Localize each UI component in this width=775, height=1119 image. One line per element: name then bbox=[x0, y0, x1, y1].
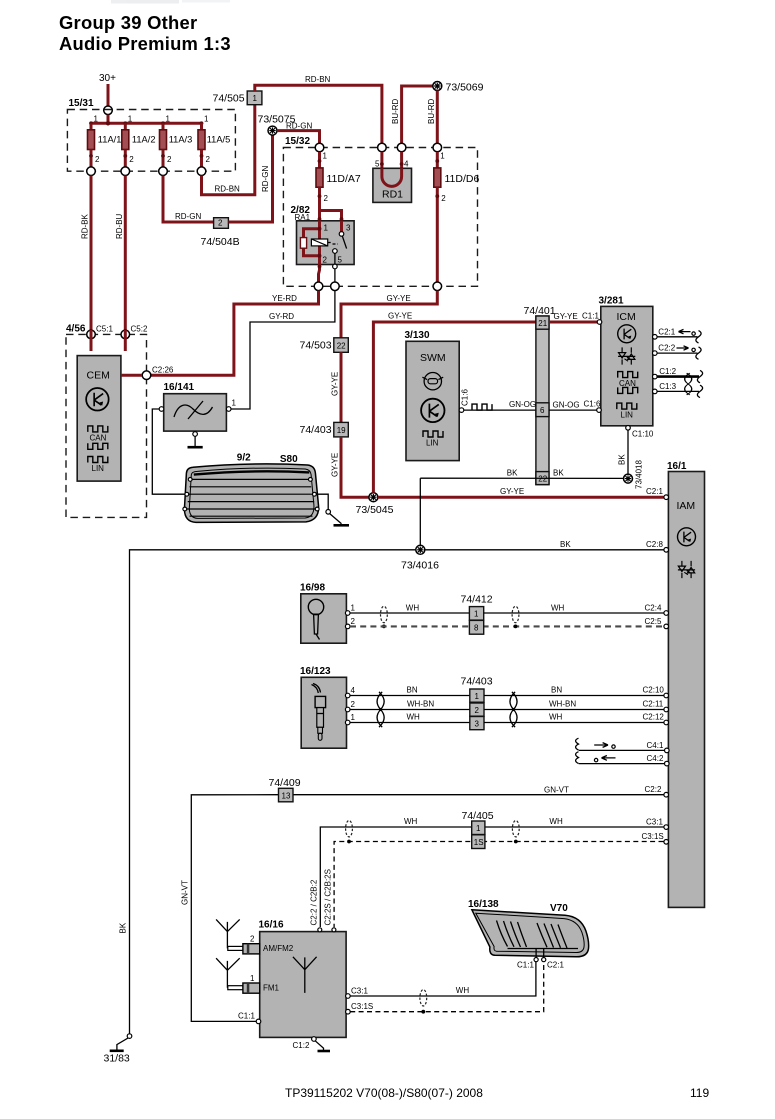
svg-text:C1:2: C1:2 bbox=[293, 1041, 310, 1050]
wire GY-YE 74/401 to ICM C1:1 bbox=[549, 312, 599, 323]
wire GN-VT run bbox=[181, 785, 664, 1021]
svg-text:19: 19 bbox=[337, 426, 346, 435]
wire shield 1S dashed run bbox=[334, 842, 663, 928]
wire GY-YE between connectors bbox=[331, 352, 342, 422]
svg-text:LIN: LIN bbox=[92, 464, 105, 473]
wire RD-BN top run bbox=[255, 75, 382, 143]
fuse 11A/5 bbox=[197, 115, 230, 176]
svg-text:RD-GN: RD-GN bbox=[261, 166, 270, 192]
wire BN aerial bbox=[350, 686, 470, 696]
svg-text:WH-BN: WH-BN bbox=[549, 700, 576, 709]
svg-text:1: 1 bbox=[476, 824, 481, 833]
connector 74/503 pin 22 bbox=[300, 338, 349, 353]
antenna amplifier 16/141 bbox=[159, 382, 236, 431]
box 15/32 bbox=[283, 136, 477, 286]
connector 74/403 lower bbox=[461, 676, 493, 730]
relay switch bbox=[340, 221, 343, 232]
svg-text:73/4016: 73/4016 bbox=[401, 560, 439, 572]
svg-text:C2:11: C2:11 bbox=[643, 699, 664, 708]
svg-text:1: 1 bbox=[250, 974, 255, 983]
wire BK 74/401 pin22 run bbox=[420, 469, 623, 479]
faint cropped header remnant bbox=[111, 0, 230, 4]
svg-text:WH: WH bbox=[551, 604, 565, 613]
svg-text:22: 22 bbox=[337, 341, 346, 350]
svg-text:GY-YE: GY-YE bbox=[387, 294, 411, 303]
wire red bus 15/31 bbox=[91, 122, 202, 125]
fuse 11D/A7 bbox=[316, 152, 361, 211]
wire WH aerial bbox=[350, 713, 470, 723]
svg-text:1: 1 bbox=[351, 604, 356, 613]
svg-text:3/281: 3/281 bbox=[599, 296, 624, 307]
svg-text:LIN: LIN bbox=[426, 439, 439, 448]
svg-text:C5:2: C5:2 bbox=[131, 325, 148, 334]
svg-text:74/405: 74/405 bbox=[462, 810, 494, 822]
svg-text:2: 2 bbox=[351, 700, 356, 709]
svg-text:RD-GN: RD-GN bbox=[286, 122, 312, 131]
twisted pair at ICM bbox=[685, 373, 692, 395]
ground contact at window bbox=[326, 510, 349, 526]
wire WH 74/405 run bbox=[320, 817, 663, 927]
svg-text:4/56: 4/56 bbox=[66, 324, 86, 335]
connector circle 11D/D6 exit bbox=[433, 282, 442, 291]
svg-text:C2:2 / C2B:2: C2:2 / C2B:2 bbox=[310, 879, 319, 925]
svg-text:C1:10: C1:10 bbox=[632, 430, 654, 439]
svg-text:74/409: 74/409 bbox=[269, 777, 301, 789]
svg-text:4: 4 bbox=[351, 686, 356, 695]
svg-text:GY-YE: GY-YE bbox=[388, 312, 412, 321]
svg-text:11D/D6: 11D/D6 bbox=[445, 173, 480, 185]
wire red C5:2 stub bbox=[124, 330, 127, 351]
svg-text:2: 2 bbox=[95, 155, 100, 164]
svg-text:GY-YE: GY-YE bbox=[554, 312, 578, 321]
svg-text:2: 2 bbox=[206, 155, 211, 164]
svg-text:11A/3: 11A/3 bbox=[169, 135, 193, 145]
svg-text:AM/FM2: AM/FM2 bbox=[263, 944, 294, 953]
svg-text:1: 1 bbox=[351, 713, 356, 722]
svg-text:RD-GN: RD-GN bbox=[175, 212, 201, 221]
svg-text:2: 2 bbox=[351, 617, 356, 626]
svg-text:C3:1: C3:1 bbox=[351, 987, 368, 996]
steering wheel module SWM 3/130 bbox=[405, 330, 470, 461]
svg-text:BK: BK bbox=[507, 469, 518, 478]
IAM pin C4:1 lead bbox=[576, 738, 665, 750]
shield screen left of 74/412 bbox=[381, 606, 388, 628]
node 30+ bbox=[99, 73, 116, 123]
wire WH-BN aerial bbox=[350, 700, 470, 710]
wire RD-BU bbox=[115, 176, 126, 331]
junction 73/5069 bbox=[433, 82, 484, 94]
svg-text:3: 3 bbox=[475, 720, 480, 729]
wire GY-YE branch up to 74/401 bbox=[373, 312, 536, 493]
svg-text:GY-YE: GY-YE bbox=[500, 487, 524, 496]
wire red C5:1 stub bbox=[90, 330, 93, 351]
svg-text:1: 1 bbox=[94, 115, 99, 124]
svg-text:SWM: SWM bbox=[420, 352, 446, 364]
svg-text:2: 2 bbox=[475, 706, 480, 715]
wire WH 16/16 to V70 aerial bbox=[350, 962, 536, 996]
svg-text:1: 1 bbox=[204, 115, 209, 124]
svg-text:16/1: 16/1 bbox=[667, 461, 687, 472]
svg-text:C2:2S / C2B:2S: C2:2S / C2B:2S bbox=[324, 869, 333, 925]
shield screen left of 74/405 bbox=[346, 821, 353, 844]
wire GN-OG 74/401 to ICM C1:6 bbox=[549, 400, 601, 411]
svg-text:2: 2 bbox=[218, 219, 223, 228]
wire WH to IAM C2:12 bbox=[484, 713, 664, 723]
connector 74/504B pin 2 bbox=[201, 218, 240, 248]
wire WH mic to IAM C2:4 bbox=[484, 604, 664, 614]
svg-text:74/505: 74/505 bbox=[213, 93, 245, 105]
svg-text:C2:1: C2:1 bbox=[658, 327, 675, 336]
svg-text:16/123: 16/123 bbox=[300, 666, 331, 677]
svg-text:IAM: IAM bbox=[677, 500, 696, 512]
svg-text:C2:10: C2:10 bbox=[643, 685, 665, 694]
svg-text:C2:1: C2:1 bbox=[646, 487, 663, 496]
svg-text:GN-VT: GN-VT bbox=[181, 880, 190, 905]
svg-text:3: 3 bbox=[346, 224, 351, 233]
fuse 11A/1 bbox=[87, 115, 122, 176]
antenna amplifier 16/16 bbox=[238, 920, 373, 1051]
wire BU-RD left bbox=[391, 86, 433, 143]
svg-text:GY-YE: GY-YE bbox=[331, 453, 340, 477]
svg-text:GY-YE: GY-YE bbox=[331, 372, 340, 396]
wire RD-GN to 11D/A7 bbox=[277, 122, 320, 144]
svg-text:5: 5 bbox=[375, 160, 380, 169]
fuse 11A/2 bbox=[121, 115, 156, 176]
svg-text:C2:12: C2:12 bbox=[643, 712, 665, 721]
shield screen on V70 wire bbox=[420, 990, 427, 1014]
svg-text:1: 1 bbox=[166, 115, 171, 124]
connector circle RD1 pin5 entry bbox=[378, 143, 387, 152]
fuse 11D/D6 bbox=[434, 152, 480, 291]
svg-text:C2:26: C2:26 bbox=[152, 366, 174, 375]
ICM pin C1:3 lead bbox=[657, 382, 703, 398]
ground 31/83 bbox=[104, 1034, 132, 1065]
svg-text:C2:1: C2:1 bbox=[547, 961, 564, 970]
svg-text:73/5069: 73/5069 bbox=[446, 82, 484, 94]
svg-text:YE-RD: YE-RD bbox=[272, 294, 297, 303]
svg-text:30+: 30+ bbox=[99, 73, 116, 84]
svg-text:BK: BK bbox=[560, 540, 571, 549]
wire GY-RD relay pin5 to 16/141 bbox=[231, 291, 335, 409]
connector 74/505 pin 1 bbox=[213, 91, 262, 105]
svg-text:73/5045: 73/5045 bbox=[356, 504, 394, 516]
wire WH-BN to IAM C2:11 bbox=[484, 700, 664, 710]
svg-text:5: 5 bbox=[338, 256, 343, 265]
wire WH mic signal bbox=[350, 604, 469, 614]
connector circle 11D/A7 entry bbox=[315, 143, 324, 152]
ground at 16/16 C1:2 bbox=[315, 1041, 330, 1051]
relay coil bbox=[311, 239, 327, 246]
connector 74/409 pin 13 bbox=[269, 777, 301, 802]
svg-text:C1:6: C1:6 bbox=[461, 389, 470, 406]
svg-text:C4:1: C4:1 bbox=[647, 741, 664, 750]
svg-text:9/2: 9/2 bbox=[237, 453, 251, 464]
svg-text:2: 2 bbox=[323, 256, 328, 265]
svg-text:1: 1 bbox=[440, 152, 445, 161]
svg-text:BK: BK bbox=[119, 922, 128, 933]
svg-text:21: 21 bbox=[538, 319, 547, 328]
junction 73/4018 bbox=[624, 460, 644, 489]
svg-text:16/141: 16/141 bbox=[164, 382, 195, 393]
svg-text:73/4018: 73/4018 bbox=[635, 460, 644, 489]
roof aerial FM1 bbox=[216, 958, 260, 993]
svg-text:74/412: 74/412 bbox=[461, 594, 493, 606]
svg-text:16/16: 16/16 bbox=[259, 920, 284, 931]
svg-text:2: 2 bbox=[441, 194, 446, 203]
svg-text:74/403: 74/403 bbox=[461, 676, 493, 688]
connector circle RD1 pin4 entry bbox=[397, 143, 406, 152]
wire window to ground switch bbox=[316, 494, 328, 509]
svg-text:1: 1 bbox=[324, 224, 329, 233]
svg-text:CEM: CEM bbox=[87, 370, 110, 382]
svg-text:3/130: 3/130 bbox=[405, 330, 430, 341]
node bus junction bbox=[106, 121, 110, 125]
svg-text:C1:1: C1:1 bbox=[238, 1012, 255, 1021]
wire branch to relay pin3 bbox=[320, 211, 342, 221]
svg-text:WH: WH bbox=[407, 713, 421, 722]
svg-text:RD-BU: RD-BU bbox=[115, 213, 124, 239]
svg-text:6: 6 bbox=[540, 406, 545, 415]
svg-text:WH: WH bbox=[549, 713, 563, 722]
fuse box 15/31 bbox=[67, 98, 235, 171]
svg-text:1S: 1S bbox=[474, 838, 484, 847]
wire 30+ feed bbox=[107, 84, 110, 106]
svg-text:C1:1: C1:1 bbox=[517, 961, 534, 970]
aerial 16/123 bbox=[300, 666, 356, 748]
wire BU-RD right bbox=[427, 91, 437, 144]
wire YE-RD relay pin2 to CEM C2:26 bbox=[151, 291, 319, 376]
connector circle 11D/D6 entry bbox=[433, 143, 442, 152]
svg-text:16/98: 16/98 bbox=[300, 583, 325, 594]
wire shield dashed to V70 C2:1 bbox=[350, 962, 544, 1012]
svg-text:C2:2: C2:2 bbox=[658, 344, 675, 353]
connector circle 30+ entry bbox=[104, 106, 113, 115]
wire 16/141 to window antenna bbox=[152, 409, 185, 494]
wire 30+ to bus bbox=[107, 115, 110, 124]
control module CEM 4/56 bbox=[66, 324, 174, 518]
svg-text:13: 13 bbox=[282, 791, 291, 800]
svg-text:BN: BN bbox=[551, 686, 562, 695]
wire RD-BK bbox=[81, 176, 92, 331]
connector 74/412 bbox=[461, 594, 493, 635]
svg-text:C5:1: C5:1 bbox=[96, 325, 113, 334]
svg-text:C1:6: C1:6 bbox=[584, 400, 601, 409]
audio module IAM 16/1 bbox=[664, 461, 705, 907]
svg-text:WH-BN: WH-BN bbox=[407, 700, 434, 709]
wire GN-OG SWM to 74/401 bbox=[464, 400, 536, 410]
svg-text:C3:1: C3:1 bbox=[646, 817, 663, 826]
wire GY-YE from 11D/D6 down the middle bbox=[341, 291, 437, 338]
svg-text:1: 1 bbox=[253, 94, 258, 103]
svg-text:119: 119 bbox=[690, 1086, 709, 1100]
svg-text:1: 1 bbox=[475, 692, 480, 701]
svg-text:BN: BN bbox=[407, 686, 418, 695]
junction 73/5075 bbox=[258, 114, 296, 136]
svg-text:11D/A7: 11D/A7 bbox=[327, 173, 361, 185]
wire BK ICM C1:10 to junction bbox=[618, 430, 629, 474]
svg-text:1: 1 bbox=[474, 610, 479, 619]
svg-text:74/403: 74/403 bbox=[300, 424, 332, 436]
svg-text:RD-BK: RD-BK bbox=[81, 213, 90, 239]
svg-text:CAN: CAN bbox=[90, 434, 107, 443]
svg-text:2: 2 bbox=[324, 194, 329, 203]
svg-text:WH: WH bbox=[406, 604, 420, 613]
connector circle relay pin2 exit bbox=[314, 282, 323, 291]
svg-text:C4:2: C4:2 bbox=[647, 754, 664, 763]
svg-text:Group 39 Other: Group 39 Other bbox=[59, 12, 197, 33]
svg-text:BU-RD: BU-RD bbox=[391, 98, 400, 124]
diode unit RD1 bbox=[373, 152, 412, 203]
shield screen right of 74/405 bbox=[512, 821, 519, 844]
svg-text:C2:5: C2:5 bbox=[645, 617, 662, 626]
svg-text:2: 2 bbox=[167, 155, 172, 164]
svg-text:LIN: LIN bbox=[621, 410, 634, 419]
svg-text:C1:3: C1:3 bbox=[659, 382, 676, 391]
microphone 16/98 bbox=[300, 583, 356, 644]
svg-text:15/32: 15/32 bbox=[285, 136, 310, 147]
svg-text:11A/2: 11A/2 bbox=[132, 135, 156, 145]
relay resistor bbox=[300, 238, 306, 249]
svg-text:2: 2 bbox=[250, 935, 255, 944]
infotainment control module ICM 3/281 bbox=[597, 296, 657, 439]
svg-text:GN-OG: GN-OG bbox=[509, 400, 536, 409]
svg-text:1: 1 bbox=[232, 399, 237, 408]
svg-text:8: 8 bbox=[474, 624, 479, 633]
svg-text:C2:2: C2:2 bbox=[645, 785, 662, 794]
connector 74/405 bbox=[462, 810, 494, 849]
svg-text:TP39115202 V70(08-)/S80(07-) 2: TP39115202 V70(08-)/S80(07-) 2008 bbox=[285, 1086, 483, 1100]
wire RD-GN to 74/504B bbox=[163, 176, 214, 223]
svg-text:CAN: CAN bbox=[619, 379, 636, 388]
svg-text:C2:8: C2:8 bbox=[646, 540, 663, 549]
svg-text:15/31: 15/31 bbox=[69, 98, 94, 109]
wire BN to IAM C2:10 bbox=[484, 686, 664, 696]
svg-text:C1:2: C1:2 bbox=[659, 367, 676, 376]
svg-text:WH: WH bbox=[549, 817, 563, 826]
svg-text:GN-OG: GN-OG bbox=[553, 401, 580, 410]
ICM pin C2:2 lead bbox=[657, 344, 701, 360]
relay 2/82 RA1 bbox=[291, 205, 355, 291]
svg-text:31/83: 31/83 bbox=[104, 1053, 130, 1065]
ICM pin C1:2 lead bbox=[657, 367, 703, 383]
svg-text:ICM: ICM bbox=[617, 311, 636, 323]
svg-text:4: 4 bbox=[404, 160, 409, 169]
svg-text:BK: BK bbox=[618, 454, 627, 465]
svg-text:Audio Premium 1:3: Audio Premium 1:3 bbox=[59, 33, 231, 54]
wire GY-YE to junction bbox=[331, 437, 370, 497]
wire BK left run to ground riser bbox=[130, 550, 417, 1034]
roof aerial AM/FM2 bbox=[216, 919, 260, 954]
svg-text:BK: BK bbox=[553, 469, 564, 478]
wire RD-BN to 74/505 bbox=[202, 105, 255, 195]
shield screen right of 74/412 bbox=[512, 606, 519, 628]
svg-text:RD-BN: RD-BN bbox=[215, 185, 241, 194]
IAM pin C4:2 lead bbox=[576, 752, 665, 764]
svg-text:C1:1: C1:1 bbox=[582, 312, 599, 321]
svg-text:74/504B: 74/504B bbox=[201, 236, 240, 248]
svg-text:11A/1: 11A/1 bbox=[98, 135, 122, 145]
connector circle relay pin5 exit bbox=[331, 282, 340, 291]
svg-text:RD1: RD1 bbox=[382, 189, 403, 201]
svg-text:1: 1 bbox=[128, 115, 133, 124]
connector 74/401 bbox=[524, 305, 556, 485]
svg-text:FM1: FM1 bbox=[263, 983, 280, 992]
svg-text:C2:4: C2:4 bbox=[645, 603, 662, 612]
ground at 16/141 bbox=[188, 432, 203, 448]
svg-text:1: 1 bbox=[323, 152, 328, 161]
svg-text:74/503: 74/503 bbox=[300, 340, 332, 352]
wire mic shield dashed bbox=[350, 625, 664, 627]
twisted pair right of 74/403 bbox=[510, 692, 517, 727]
side window aerial 16/138 V70 bbox=[468, 899, 589, 970]
svg-text:GY-RD: GY-RD bbox=[269, 312, 294, 321]
svg-text:11A/5: 11A/5 bbox=[207, 135, 231, 145]
svg-text:WH: WH bbox=[456, 986, 470, 995]
svg-text:2: 2 bbox=[129, 155, 134, 164]
svg-text:16/138: 16/138 bbox=[468, 899, 499, 910]
rear window antenna 9/2 S80 bbox=[183, 453, 319, 523]
wire RD-GN to 73/5075 bbox=[228, 135, 272, 222]
connector 74/403 pin 19 bbox=[300, 422, 349, 437]
svg-text:BU-RD: BU-RD bbox=[427, 98, 436, 124]
wire GY-YE junction to IAM C2:1 bbox=[378, 487, 664, 497]
svg-text:74/401: 74/401 bbox=[524, 305, 556, 317]
svg-text:RD-BN: RD-BN bbox=[305, 75, 331, 84]
twisted pair left of 74/403 bbox=[377, 692, 384, 727]
svg-text:V70: V70 bbox=[550, 903, 568, 914]
svg-text:WH: WH bbox=[404, 817, 418, 826]
wire BK down to 73/4016 bbox=[419, 478, 421, 545]
fuse 11A/3 bbox=[159, 115, 193, 176]
junction 73/5045 bbox=[356, 493, 394, 516]
ICM pin C2:1 lead bbox=[657, 327, 701, 343]
svg-text:22: 22 bbox=[538, 475, 547, 484]
wire BK junction to IAM C2:8 bbox=[425, 540, 664, 550]
junction 73/4016 bbox=[401, 545, 439, 571]
svg-text:GN-VT: GN-VT bbox=[544, 785, 569, 794]
relay coil circuit bbox=[304, 221, 320, 265]
svg-text:C3:1S: C3:1S bbox=[351, 1002, 373, 1011]
svg-text:C3:1S: C3:1S bbox=[642, 832, 664, 841]
